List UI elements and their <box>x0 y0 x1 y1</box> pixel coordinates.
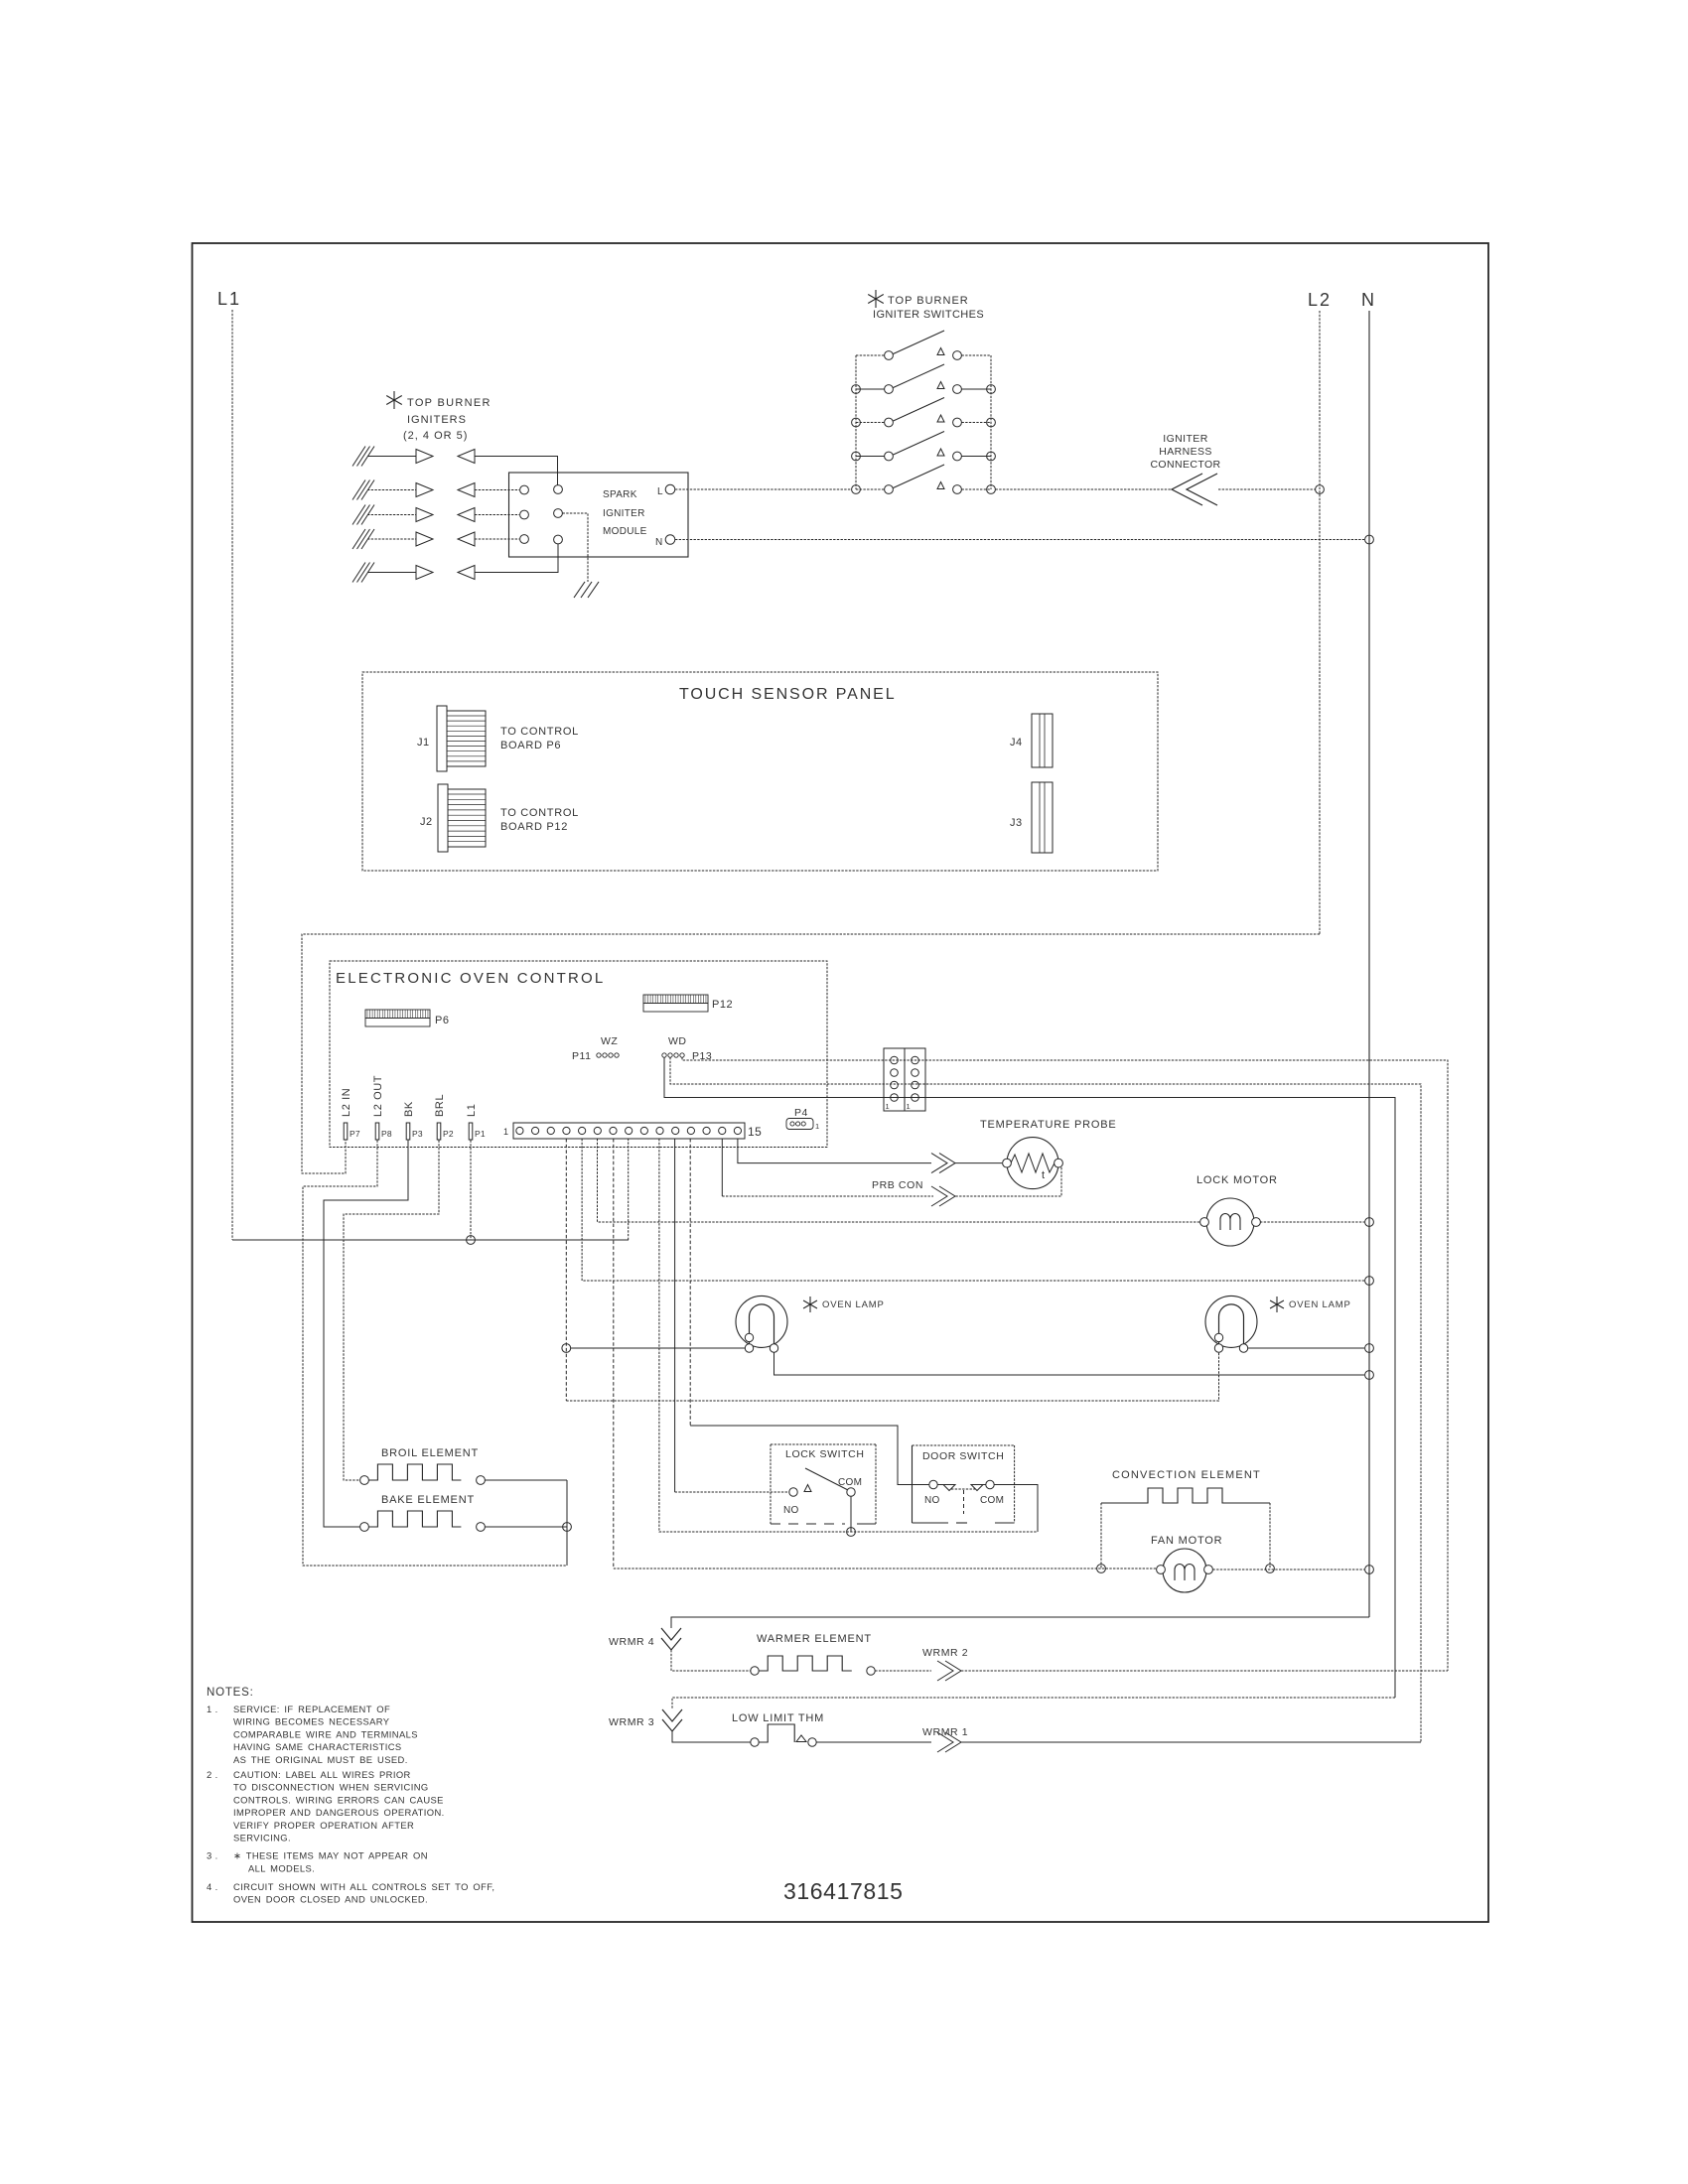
igniter 1 arrow out <box>416 450 433 464</box>
svg-text:BRL: BRL <box>434 1094 446 1117</box>
svg-text:NO: NO <box>783 1505 799 1516</box>
pin 13 <box>703 1127 710 1134</box>
junction <box>987 452 996 461</box>
svg-text:OVEN LAMP: OVEN LAMP <box>1289 1299 1351 1310</box>
svg-text:4 .: 4 . <box>207 1881 218 1892</box>
wire pin12 to door switch NO <box>689 1139 691 1426</box>
oven lamp 2 <box>1205 1296 1257 1347</box>
fan motor M2 <box>1163 1549 1206 1592</box>
wire igniter 2 to module <box>475 489 519 491</box>
wire BRL to broil element <box>344 1141 439 1481</box>
junction bake out <box>563 1523 572 1532</box>
svg-text:DOOR SWITCH: DOOR SWITCH <box>922 1450 1004 1462</box>
junction N fan <box>1365 1566 1374 1574</box>
junction L2 <box>1316 485 1325 494</box>
svg-text:SPARK: SPARK <box>603 489 637 500</box>
wire WRMR4 to warmer element <box>671 1650 751 1671</box>
pin 10 <box>656 1127 663 1134</box>
pin 1 <box>516 1127 523 1134</box>
svg-text:HAVING SAME CHARACTERISTICS: HAVING SAME CHARACTERISTICS <box>233 1741 402 1752</box>
svg-text:IGNITER: IGNITER <box>603 508 645 519</box>
wire P13 to WRMR2 loop <box>682 1057 1448 1671</box>
svg-text:WD: WD <box>668 1035 687 1047</box>
wire L2 to control board P7 (L2 IN) <box>302 934 1320 1173</box>
igniter 5 arrow in <box>458 566 475 580</box>
svg-text:L1: L1 <box>466 1104 478 1117</box>
junction N lock motor <box>1365 1218 1374 1227</box>
low limit thermostat <box>751 1738 759 1746</box>
wire pin10 to COM rail <box>659 1139 1038 1532</box>
junction <box>852 418 861 427</box>
svg-text:(2, 4 OR 5): (2, 4 OR 5) <box>403 430 468 442</box>
svg-text:CONTROLS. WIRING ERRORS CAN: CONTROLS. WIRING ERRORS CAN CAUSE <box>233 1794 444 1805</box>
svg-text:PRB CON: PRB CON <box>872 1179 923 1191</box>
junction N lamp2 <box>1365 1344 1374 1353</box>
svg-text:J4: J4 <box>1010 737 1023 749</box>
svg-text:WRMR 2: WRMR 2 <box>922 1647 968 1659</box>
svg-text:TOUCH SENSOR PANEL: TOUCH SENSOR PANEL <box>679 686 897 703</box>
svg-text:CIRCUIT SHOWN WITH ALL CONTROL: CIRCUIT SHOWN WITH ALL CONTROLS SET TO O… <box>233 1881 494 1892</box>
junction N lamp1 <box>1365 1371 1374 1380</box>
igniter 4 chassis hatch <box>352 529 365 549</box>
wire connector to probe <box>955 1162 1002 1164</box>
junction <box>852 452 861 461</box>
wire pin6 to lock motor <box>598 1139 1203 1222</box>
svg-text:L1: L1 <box>217 289 241 309</box>
svg-text:COM: COM <box>980 1495 1004 1506</box>
svg-text:L2: L2 <box>1308 290 1332 310</box>
wire WRMR1 return <box>961 1741 1421 1743</box>
svg-text:TO CONTROL: TO CONTROL <box>500 726 579 738</box>
wire lock switch COM down <box>850 1496 852 1532</box>
wire igniter 4 to module <box>475 538 519 540</box>
svg-text:TO CONTROL: TO CONTROL <box>500 807 579 819</box>
svg-text:P8: P8 <box>381 1129 392 1139</box>
wire N bus <box>1368 311 1370 1617</box>
wire WD to WRMR1 loop <box>670 1057 1421 1742</box>
svg-text:∗ THESE ITEMS MAY NOT APPEAR: ∗ THESE ITEMS MAY NOT APPEAR ON <box>233 1850 428 1861</box>
touch sensor panel box <box>362 672 1158 871</box>
oven lamp 2 label <box>1276 1297 1278 1312</box>
svg-text:IGNITER: IGNITER <box>1163 433 1207 445</box>
module pins col2 <box>554 485 563 494</box>
door switch S2 <box>929 1480 937 1488</box>
wire L1 bus <box>231 310 233 1240</box>
svg-text:P2: P2 <box>443 1129 454 1139</box>
pin P2 (BRL) <box>437 1123 441 1140</box>
pin 7 <box>610 1127 617 1134</box>
wire WD to WRMR3 loop <box>664 1057 1395 1698</box>
svg-text:1: 1 <box>886 1102 890 1111</box>
igniter switch 5 <box>856 488 885 490</box>
junction N <box>1365 1277 1374 1286</box>
wire broil out <box>485 1479 567 1481</box>
svg-text:BOARD P6: BOARD P6 <box>500 740 561 751</box>
wire igniter 5 to module <box>475 544 558 573</box>
svg-text:NO: NO <box>924 1495 940 1506</box>
svg-text:WZ: WZ <box>601 1035 618 1047</box>
bake element <box>360 1523 369 1532</box>
wire pin14 to probe connector <box>721 1139 723 1196</box>
junction <box>987 485 996 494</box>
wire N to WRMR4 <box>671 1617 1369 1628</box>
svg-text:N: N <box>1361 290 1375 310</box>
wire igniter 3 to module <box>475 514 519 516</box>
igniter switch 2 <box>856 388 885 390</box>
pin 6 <box>594 1127 601 1134</box>
svg-text:COM: COM <box>838 1477 862 1488</box>
junction <box>852 385 861 394</box>
svg-text:ELECTRONIC OVEN CONTROL: ELECTRONIC OVEN CONTROL <box>336 970 605 987</box>
svg-text:WRMR 3: WRMR 3 <box>609 1716 654 1728</box>
svg-text:VERIFY PROPER OPERATION AFTER: VERIFY PROPER OPERATION AFTER <box>233 1820 414 1831</box>
svg-text:IMPROPER AND DANGEROUS OPERATI: IMPROPER AND DANGEROUS OPERATION. <box>233 1807 445 1818</box>
wire igniter 4 <box>367 538 416 540</box>
wire pin5 to N <box>582 1139 1364 1281</box>
svg-text:IGNITERS: IGNITERS <box>407 414 467 426</box>
wire igniter 2 <box>367 489 416 491</box>
wire lamp1 feed <box>571 1347 745 1349</box>
pin P1 (L1) <box>469 1123 473 1140</box>
wire to WRMR3 <box>672 1698 1395 1709</box>
wire switches to L2 <box>996 488 1173 490</box>
connector P6 <box>365 1010 430 1019</box>
svg-text:FAN MOTOR: FAN MOTOR <box>1151 1535 1222 1547</box>
svg-text:AS THE ORIGINAL MUST BE USED.: AS THE ORIGINAL MUST BE USED. <box>233 1754 408 1765</box>
svg-text:MODULE: MODULE <box>603 526 647 537</box>
pin 2 <box>531 1127 538 1134</box>
igniter 1 chassis hatch <box>352 447 365 467</box>
ground <box>574 582 585 598</box>
wire lamp1 to N <box>774 1352 1365 1375</box>
wire L2 OUT return <box>303 1141 567 1567</box>
wire module L to switches <box>675 488 852 490</box>
svg-text:OVEN DOOR CLOSED AND UNLOCKED.: OVEN DOOR CLOSED AND UNLOCKED. <box>233 1894 428 1905</box>
svg-text:CAUTION: LABEL ALL WIRES PRI: CAUTION: LABEL ALL WIRES PRIOR <box>233 1769 411 1780</box>
connector block 2x4 <box>884 1048 905 1111</box>
igniter 3 chassis hatch <box>352 505 365 525</box>
wire warmer to WRMR2 <box>875 1670 931 1672</box>
lock motor M1 <box>1206 1198 1254 1246</box>
svg-text:J2: J2 <box>420 816 433 828</box>
pin 5 <box>579 1127 586 1134</box>
svg-text:ALL MODELS.: ALL MODELS. <box>248 1863 315 1874</box>
svg-text:P1: P1 <box>475 1129 486 1139</box>
svg-text:N: N <box>655 537 663 548</box>
igniter 2 arrow out <box>416 483 433 497</box>
junction <box>987 418 996 427</box>
temperature probe RT1 <box>1007 1138 1058 1189</box>
svg-text:TO DISCONNECTION WHEN SERVICIN: TO DISCONNECTION WHEN SERVICING <box>233 1782 429 1793</box>
svg-text:1 .: 1 . <box>207 1704 218 1714</box>
svg-text:HARNESS: HARNESS <box>1159 446 1212 458</box>
igniter 4 arrow out <box>416 532 433 546</box>
svg-text:1: 1 <box>815 1122 819 1131</box>
pin 3 <box>547 1127 554 1134</box>
svg-text:J3: J3 <box>1010 817 1023 829</box>
wire igniter 5 <box>367 572 416 574</box>
svg-text:LOW LIMIT THM: LOW LIMIT THM <box>732 1712 824 1724</box>
wire igniter 1 <box>367 456 416 458</box>
wire module N to N bus <box>675 539 1364 541</box>
top burner igniters label <box>393 391 395 409</box>
spark igniter module box <box>509 473 689 557</box>
svg-text:316417815: 316417815 <box>783 1878 904 1904</box>
svg-text:IGNITER SWITCHES: IGNITER SWITCHES <box>873 309 984 321</box>
pin 14 <box>719 1127 726 1134</box>
svg-text:SERVICE: IF REPLACEMENT OF: SERVICE: IF REPLACEMENT OF <box>233 1704 390 1714</box>
svg-text:TEMPERATURE PROBE: TEMPERATURE PROBE <box>980 1119 1116 1131</box>
svg-text:L2 IN: L2 IN <box>341 1088 352 1117</box>
junction <box>987 385 996 394</box>
svg-text:1: 1 <box>907 1102 911 1111</box>
wire igniter switch right bus <box>990 355 992 489</box>
junction fan feed left <box>1097 1565 1106 1573</box>
wire pin15 to probe connector <box>738 1139 931 1163</box>
svg-text:t: t <box>1042 1169 1045 1181</box>
wire pin11 to lock switch <box>674 1139 676 1492</box>
pin 9 <box>640 1127 647 1134</box>
igniter 3 arrow in <box>458 508 475 522</box>
oven lamp 1 label <box>809 1297 811 1312</box>
svg-text:L2 OUT: L2 OUT <box>372 1075 384 1117</box>
lock switch S1 <box>789 1488 797 1496</box>
svg-text:NOTES:: NOTES: <box>207 1687 254 1699</box>
svg-text:TOP BURNER: TOP BURNER <box>407 397 492 409</box>
igniter 4 arrow in <box>458 532 475 546</box>
svg-text:15: 15 <box>748 1125 762 1139</box>
terminal strip 1-15 <box>513 1123 745 1139</box>
svg-text:WARMER ELEMENT: WARMER ELEMENT <box>757 1633 872 1645</box>
svg-text:SERVICING.: SERVICING. <box>233 1833 291 1843</box>
pin 11 <box>672 1127 679 1134</box>
oven lamp 1 <box>736 1296 787 1347</box>
svg-text:P3: P3 <box>412 1129 423 1139</box>
probe connector out <box>939 1154 955 1173</box>
svg-text:CONNECTOR: CONNECTOR <box>1150 459 1220 471</box>
wire WRMR3 to low limit <box>672 1731 751 1742</box>
probe connector return <box>939 1186 955 1206</box>
pin 15 <box>734 1127 741 1134</box>
wire L2 bus <box>1319 311 1321 934</box>
wire lamp2 lower feed <box>566 1352 1218 1401</box>
connector P12 <box>643 995 708 1004</box>
wire WRMR2 return <box>961 1670 1448 1672</box>
svg-text:WIRING BECOMES NECESSARY: WIRING BECOMES NECESSARY <box>233 1716 390 1727</box>
wire L1 to pin8 <box>232 1239 629 1241</box>
wire lamp2 to N <box>1248 1347 1364 1349</box>
junction N <box>1365 535 1374 544</box>
svg-text:1: 1 <box>503 1127 508 1137</box>
pin P8 (L2 OUT) <box>375 1123 379 1140</box>
igniter 5 chassis hatch <box>352 563 365 583</box>
top burner igniter switches label <box>875 290 877 308</box>
pin 8 <box>626 1127 633 1134</box>
pin P7 (L2 IN) <box>344 1123 348 1140</box>
wire BK to bake element <box>324 1141 408 1528</box>
junction L1 P1 <box>467 1236 476 1245</box>
svg-text:L: L <box>657 486 663 497</box>
wire pin4 to oven lamps <box>565 1139 567 1401</box>
svg-text:P12: P12 <box>712 999 733 1011</box>
svg-text:P6: P6 <box>435 1015 449 1026</box>
svg-text:3 .: 3 . <box>207 1850 218 1861</box>
wire igniter 1 to module <box>475 457 558 485</box>
wire bake out <box>485 1526 567 1528</box>
igniter 5 arrow out <box>416 566 433 580</box>
convection element <box>1101 1488 1270 1503</box>
svg-text:J1: J1 <box>417 737 430 749</box>
svg-text:COMPARABLE WIRE AND TERMINALS: COMPARABLE WIRE AND TERMINALS <box>233 1728 418 1739</box>
wire low limit to WRMR1 <box>816 1741 931 1743</box>
wire igniter switch left bus <box>855 355 857 489</box>
border frame <box>193 243 1489 1922</box>
wire pin7 to fan motor <box>613 1139 615 1569</box>
svg-text:BK: BK <box>403 1101 415 1117</box>
broil element <box>360 1476 369 1485</box>
junction lamp feed <box>562 1344 571 1353</box>
igniter 2 arrow in <box>458 483 475 497</box>
wire module pin to ground <box>563 513 589 582</box>
junction <box>852 485 861 494</box>
wire lock motor to N <box>1260 1221 1364 1223</box>
igniter switch 3 <box>856 422 885 424</box>
igniter switch 4 <box>856 456 885 458</box>
electronic oven control box <box>330 961 827 1148</box>
pin 12 <box>687 1127 694 1134</box>
pin P3 (BK) <box>406 1123 410 1140</box>
svg-text:2 .: 2 . <box>207 1769 218 1780</box>
svg-text:P7: P7 <box>350 1129 360 1139</box>
wire probe return <box>955 1167 1061 1196</box>
wire fan motor to N <box>1212 1569 1364 1570</box>
svg-text:P11: P11 <box>572 1050 591 1062</box>
module pins col1 <box>520 485 529 494</box>
svg-text:LOCK SWITCH: LOCK SWITCH <box>785 1448 865 1460</box>
door switch box <box>912 1445 914 1523</box>
igniter switch 1 <box>856 354 885 356</box>
svg-text:P4: P4 <box>794 1107 808 1119</box>
wire pin P1 drop <box>470 1141 472 1241</box>
wire bake join <box>566 1480 568 1566</box>
junction lock COM <box>847 1528 856 1537</box>
lock switch box <box>771 1443 876 1445</box>
svg-text:BAKE ELEMENT: BAKE ELEMENT <box>381 1494 475 1506</box>
wire igniter 3 <box>367 514 416 516</box>
svg-text:BROIL ELEMENT: BROIL ELEMENT <box>381 1447 479 1459</box>
svg-text:BOARD P12: BOARD P12 <box>500 821 568 833</box>
svg-text:LOCK MOTOR: LOCK MOTOR <box>1196 1174 1278 1186</box>
igniter 2 chassis hatch <box>352 480 365 500</box>
junction fan feed right <box>1266 1565 1275 1573</box>
wire door switch COM <box>994 1485 1038 1533</box>
svg-text:WRMR 4: WRMR 4 <box>609 1636 654 1648</box>
wire convection taps <box>1100 1503 1102 1569</box>
igniter 3 arrow out <box>416 508 433 522</box>
igniter 1 arrow in <box>458 450 475 464</box>
svg-text:TOP BURNER: TOP BURNER <box>888 295 969 307</box>
svg-text:CONVECTION ELEMENT: CONVECTION ELEMENT <box>1112 1469 1261 1481</box>
pin 4 <box>563 1127 570 1134</box>
svg-text:OVEN LAMP: OVEN LAMP <box>822 1299 885 1310</box>
warmer element <box>751 1667 759 1675</box>
